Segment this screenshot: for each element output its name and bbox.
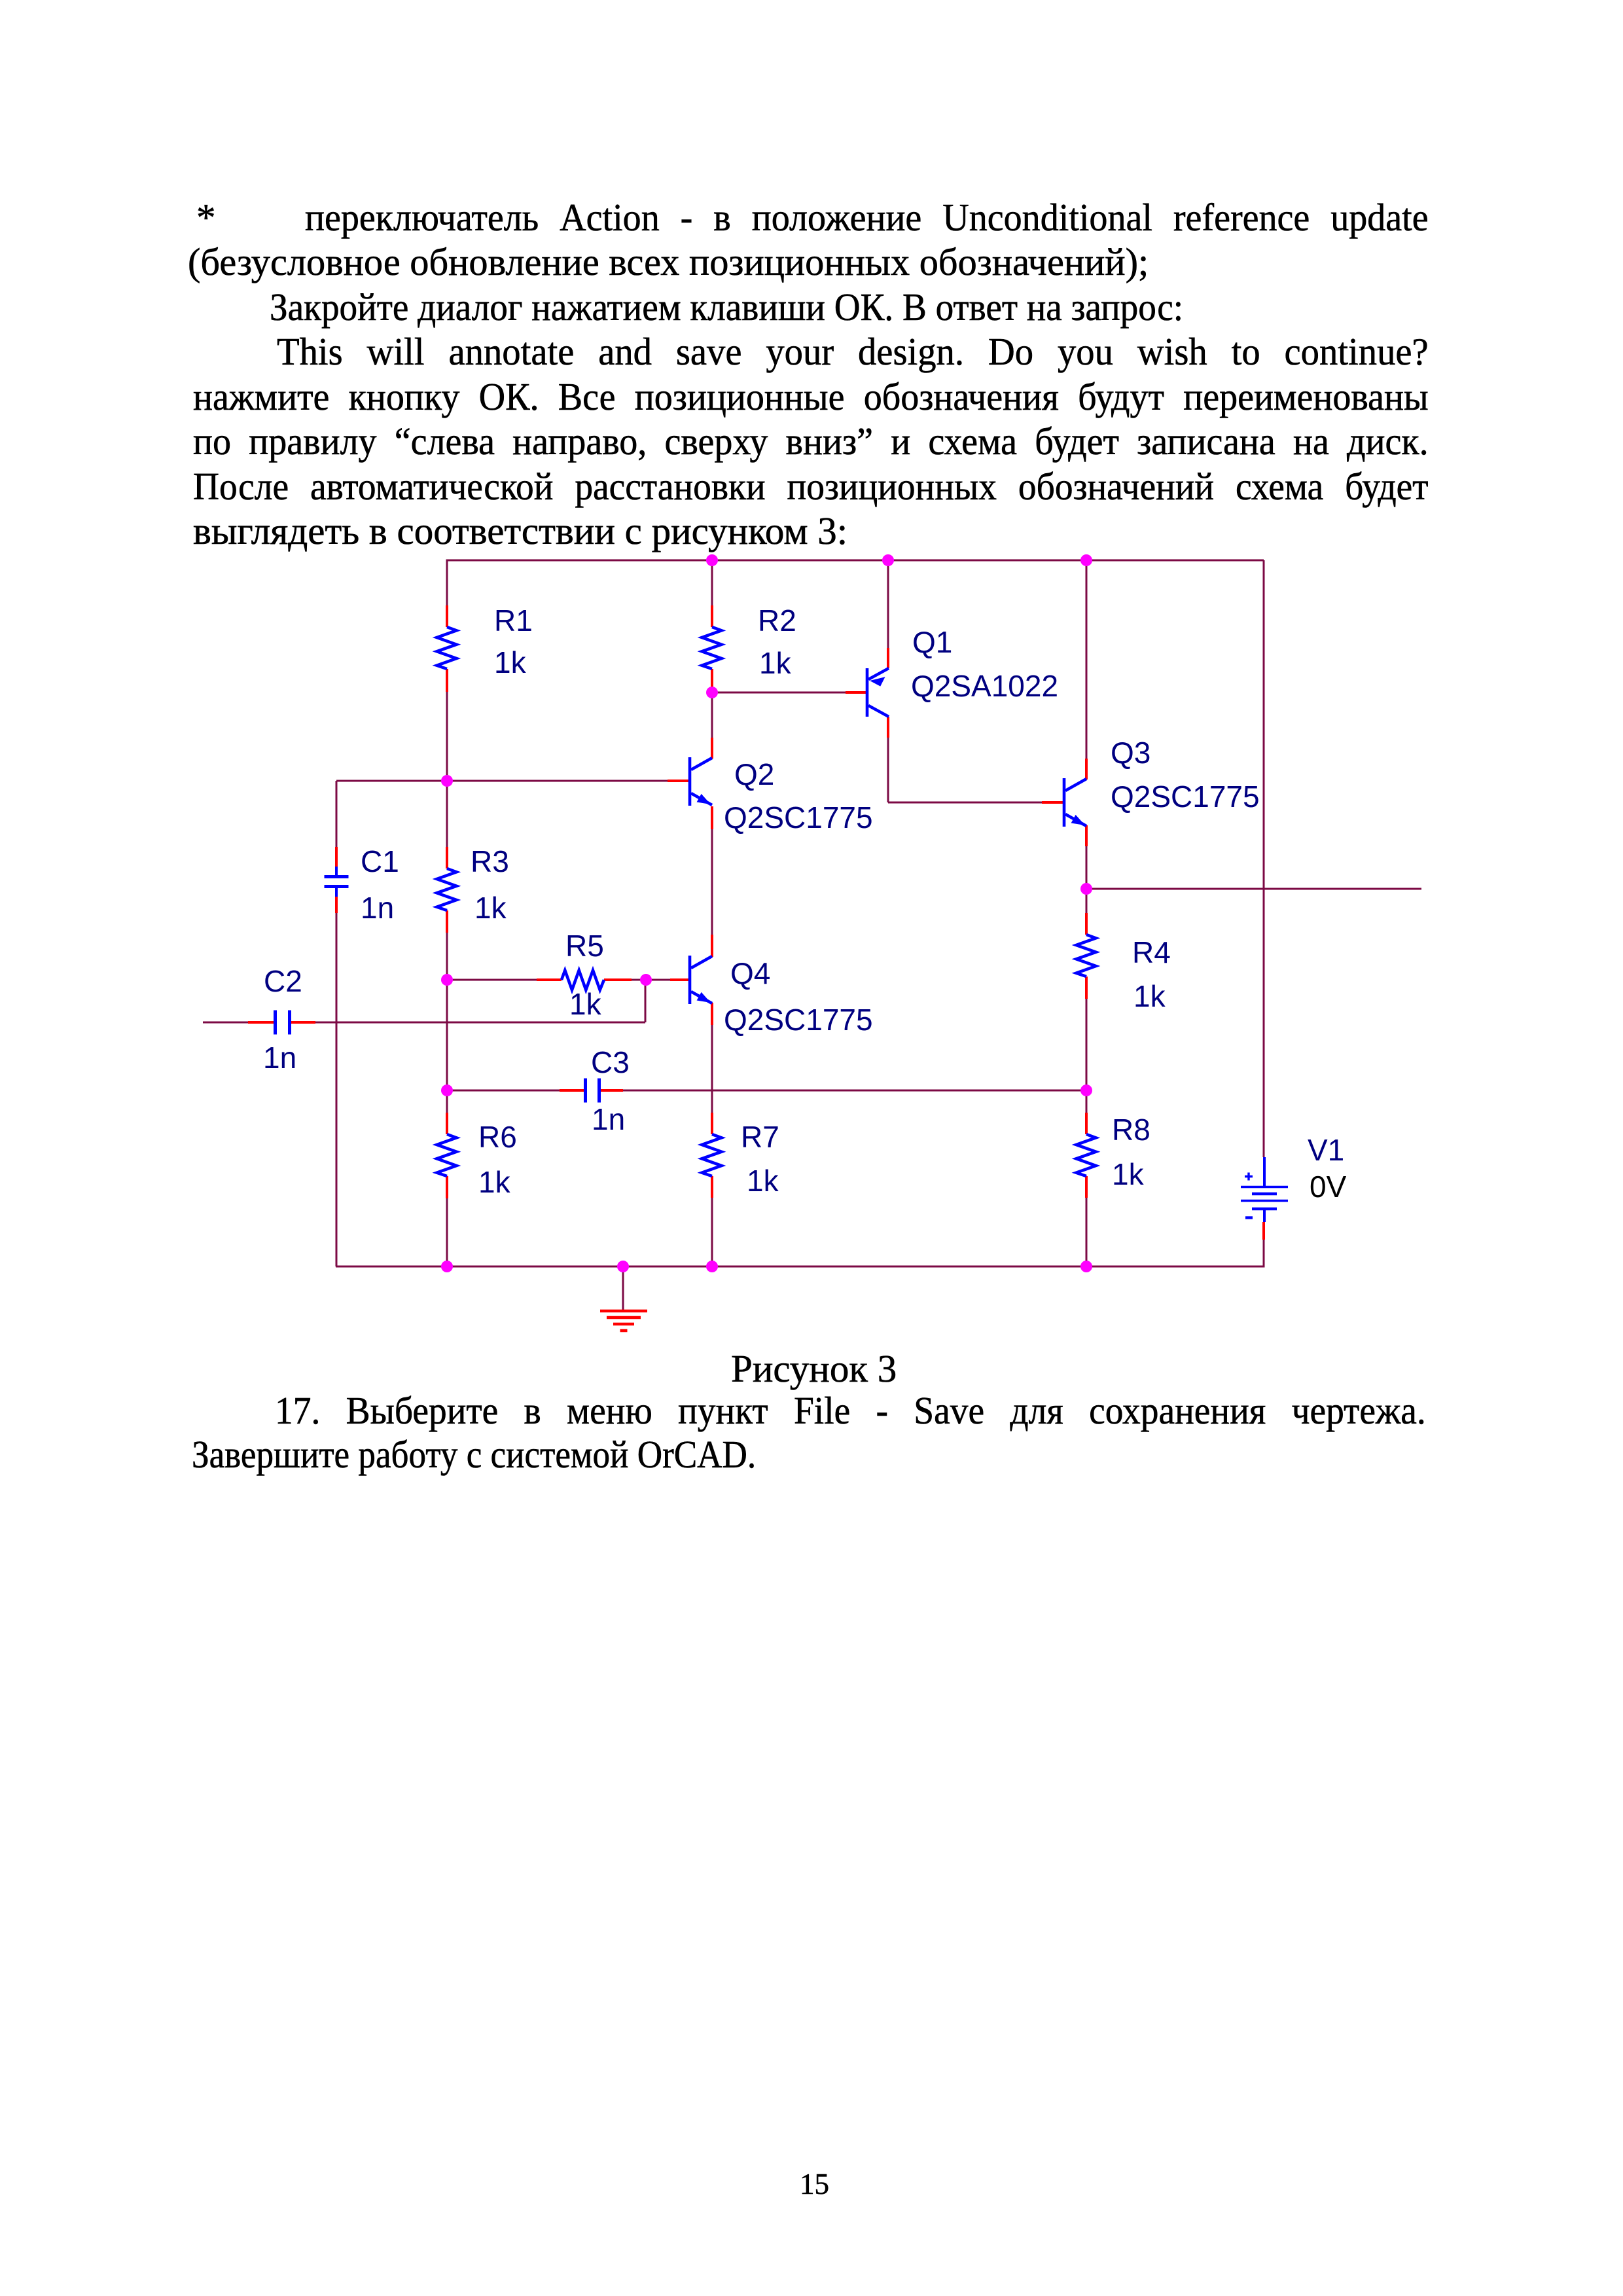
wire V1 border x=1931 [1263,560,1265,1268]
resistor R8 [1077,1134,1096,1176]
resistor R1 [437,627,457,669]
svg-text:V1: V1 [1308,1133,1344,1167]
transistor Q1 pin leads (base, emitter, collector) [846,648,888,738]
junction: bottom rail / R8 branch [1080,1261,1092,1272]
wire bottom ground rail [336,1266,1264,1268]
svg-text:R8: R8 [1112,1113,1150,1147]
svg-text:C1: C1 [361,844,399,878]
svg-text:R6: R6 [478,1120,517,1154]
resistor R3 pin leads [446,847,448,933]
resistor R2 [702,627,722,669]
svg-text:Q2SC1775: Q2SC1775 [724,1003,873,1037]
svg-text:1k: 1k [747,1164,779,1198]
resistor R2 pin leads [711,605,713,691]
svg-text:C3: C3 [591,1045,630,1079]
transistor Q2 pin leads (base, collector, emitter) [668,738,712,829]
transistor Q1 (PNP Q2SA1022) [867,668,889,717]
junction: R3 bottom / R5 left [441,974,453,986]
transistor Q4 pin leads (base, collector, emitter) [670,935,712,1025]
svg-text:1n: 1n [263,1041,296,1075]
paragraph line 8 [193,509,847,552]
junction: C3 right / R4 bottom / R8 top [1080,1085,1092,1096]
capacitor C1 [325,867,349,897]
wire Q2 base net y=1193 [336,780,689,782]
paragraph line 1 [196,196,216,239]
svg-text:1k: 1k [494,645,527,679]
svg-text:1k: 1k [474,891,507,925]
capacitor C1 pin leads [335,847,338,913]
resistor R5 pin leads [537,978,632,981]
svg-text:Q4: Q4 [730,956,770,990]
transistor Q4 (NPN Q2SC1775) [690,956,712,1004]
capacitor C2 pin leads [248,1021,315,1024]
svg-text:Q3: Q3 [1111,736,1150,770]
resistor R3 [437,869,457,910]
wire R2 bottom to Q1 base y=1058 [712,692,866,694]
paragraph line 7 [193,465,1429,508]
junction: Q3 emitter / R4 top / output line [1080,883,1092,895]
svg-text:1k: 1k [569,987,602,1021]
svg-text:R5: R5 [565,929,604,963]
wire R5 net y=1497 [447,979,689,981]
transistor Q3 pin leads (base, collector, emitter) [1042,759,1086,846]
svg-text:C2: C2 [264,964,302,998]
svg-text:R4: R4 [1132,935,1171,969]
svg-text:R7: R7 [741,1120,779,1154]
page number [800,2168,829,2200]
junction: C3 left / R6 top [441,1085,453,1096]
wire right branch x=1660 (Q3/R4/R8 column) [1086,560,1088,1266]
svg-text:Q2SC1775: Q2SC1775 [1111,780,1260,814]
battery V1 negative pin lead [1262,1222,1265,1240]
ground symbol [600,1311,647,1331]
junction: top rail / Q1 emitter branch [882,554,894,566]
junction: bottom rail / R7 branch [706,1261,718,1272]
resistor R6 [437,1134,457,1176]
paragraph line 2 [188,240,1149,283]
svg-text:R2: R2 [758,603,796,637]
transistor Q3 (NPN Q2SC1775) [1064,778,1086,827]
svg-text:Q2: Q2 [734,757,774,791]
svg-text:R3: R3 [471,844,509,878]
junction: top rail / Q3 collector branch [1080,554,1092,566]
svg-text:1n: 1n [592,1102,625,1136]
battery V1 [1241,1157,1288,1222]
transistor Q2 (NPN Q2SC1775) [690,757,712,806]
wire top power rail [447,560,1264,562]
junction: bottom rail / ground stem [617,1261,629,1272]
paragraph line 3 [270,285,1183,329]
junction: top rail / R2 branch [706,554,718,566]
svg-text:1k: 1k [1112,1157,1145,1191]
wire output line y=1358 [1086,888,1421,890]
svg-text:1n: 1n [361,891,394,925]
paragraph line 5 [193,375,1429,418]
resistor R7 [702,1134,722,1176]
junction: bottom rail / R6 branch [441,1261,453,1272]
resistor R7 pin leads [711,1113,713,1198]
bottom paragraph line 2 [192,1433,756,1476]
svg-text:0V: 0V [1310,1170,1347,1204]
svg-text:1k: 1k [759,646,792,680]
svg-text:Q2SC1775: Q2SC1775 [724,800,873,834]
capacitor C2 [276,1011,290,1035]
wire left branch x=683 (R1/R3/R6 column) [446,560,448,1267]
wire C2 riser x=986 [645,980,647,1022]
resistor R1 pin leads [446,605,448,692]
resistor R4 pin leads [1085,913,1088,999]
svg-text:Q2SA1022: Q2SA1022 [911,669,1058,703]
wire Q1 collector to Q3 base y=1226 [888,802,1063,804]
junction: R5 right / Q4 base / C2 riser [640,974,652,986]
paragraph line 6 [193,420,1429,463]
wire Q1 branch x=1357 [887,560,889,802]
wire C3 net y=1666 [447,1090,1086,1092]
figure caption [731,1347,897,1390]
junction: R1 bottom / Q2 base / C1 branch [441,775,453,787]
wire middle branch x=1088 (R2/Q2/Q4/R7 column) [711,560,713,1266]
svg-text:Q1: Q1 [912,625,952,659]
resistor R6 pin leads [446,1113,448,1198]
wire ground stem [622,1266,624,1311]
resistor R5 (horizontal) [562,971,604,990]
bottom paragraph line 1 [275,1389,1426,1432]
paragraph line 4 [277,330,1429,373]
junction: R2 bottom / Q2 collector / Q1 base [706,687,718,698]
wire C1 branch x=514 [336,781,338,1266]
resistor R4 [1077,935,1096,977]
svg-text:1k: 1k [478,1165,511,1199]
wire C2 input line y=1562 [203,1022,645,1024]
svg-text:1k: 1k [1133,979,1166,1013]
capacitor C3 pin leads [560,1089,623,1092]
resistor R8 pin leads [1085,1113,1088,1198]
capacitor C3 [586,1079,599,1103]
svg-text:R1: R1 [494,603,533,637]
